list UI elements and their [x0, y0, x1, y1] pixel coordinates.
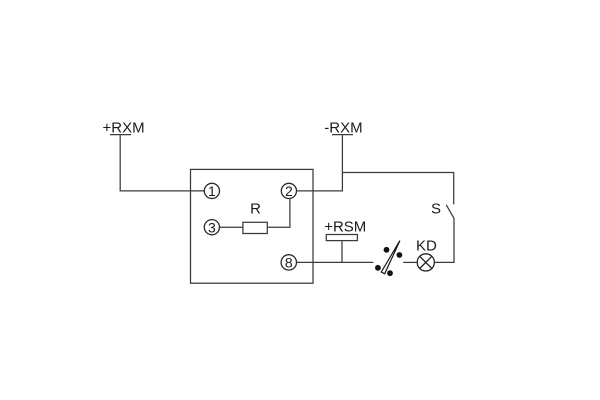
- test link contact dot upper left: [384, 247, 390, 253]
- relay box: [191, 169, 314, 283]
- switch S blade: [446, 205, 454, 219]
- wire -RXM vertical: [341, 135, 343, 191]
- wire +RXM vertical: [119, 135, 121, 191]
- svg-text:+RXM: +RXM: [103, 119, 145, 136]
- terminal tick -RXM: [332, 134, 353, 136]
- svg-text:S: S: [431, 201, 441, 218]
- resistor R: [243, 222, 267, 233]
- svg-text:-RXM: -RXM: [324, 119, 362, 136]
- terminal 2: [281, 183, 296, 198]
- test link contact dot upper right: [397, 252, 403, 258]
- wire lamp to test link: [403, 261, 417, 263]
- wire switch to lamp: [434, 219, 454, 263]
- svg-text:R: R: [250, 200, 261, 217]
- test link blade: [381, 241, 400, 274]
- terminal 1: [204, 183, 219, 198]
- svg-text:1: 1: [208, 183, 216, 199]
- wire pin3 to resistor: [220, 226, 243, 228]
- lamp KD: [417, 254, 434, 271]
- wire pin2 to -RXM node: [297, 190, 343, 192]
- svg-text:KD: KD: [416, 238, 437, 255]
- svg-text:8: 8: [285, 255, 293, 271]
- wire pin8 to test link: [297, 261, 374, 263]
- svg-text:3: 3: [208, 219, 216, 235]
- wire node to switch S: [342, 173, 453, 205]
- test link contact dot lower right: [387, 270, 393, 276]
- terminal 8: [281, 255, 296, 270]
- terminal bar +RSM: [326, 235, 357, 241]
- wire resistor to pin2: [267, 199, 290, 228]
- test link contact dot lower left: [375, 265, 381, 271]
- svg-text:2: 2: [285, 183, 293, 199]
- terminal 3: [204, 220, 219, 235]
- svg-text:+RSM: +RSM: [324, 219, 366, 236]
- wire +RXM to pin 1: [120, 190, 205, 192]
- wire +RSM tap: [341, 241, 343, 263]
- terminal tick +RXM: [110, 134, 131, 136]
